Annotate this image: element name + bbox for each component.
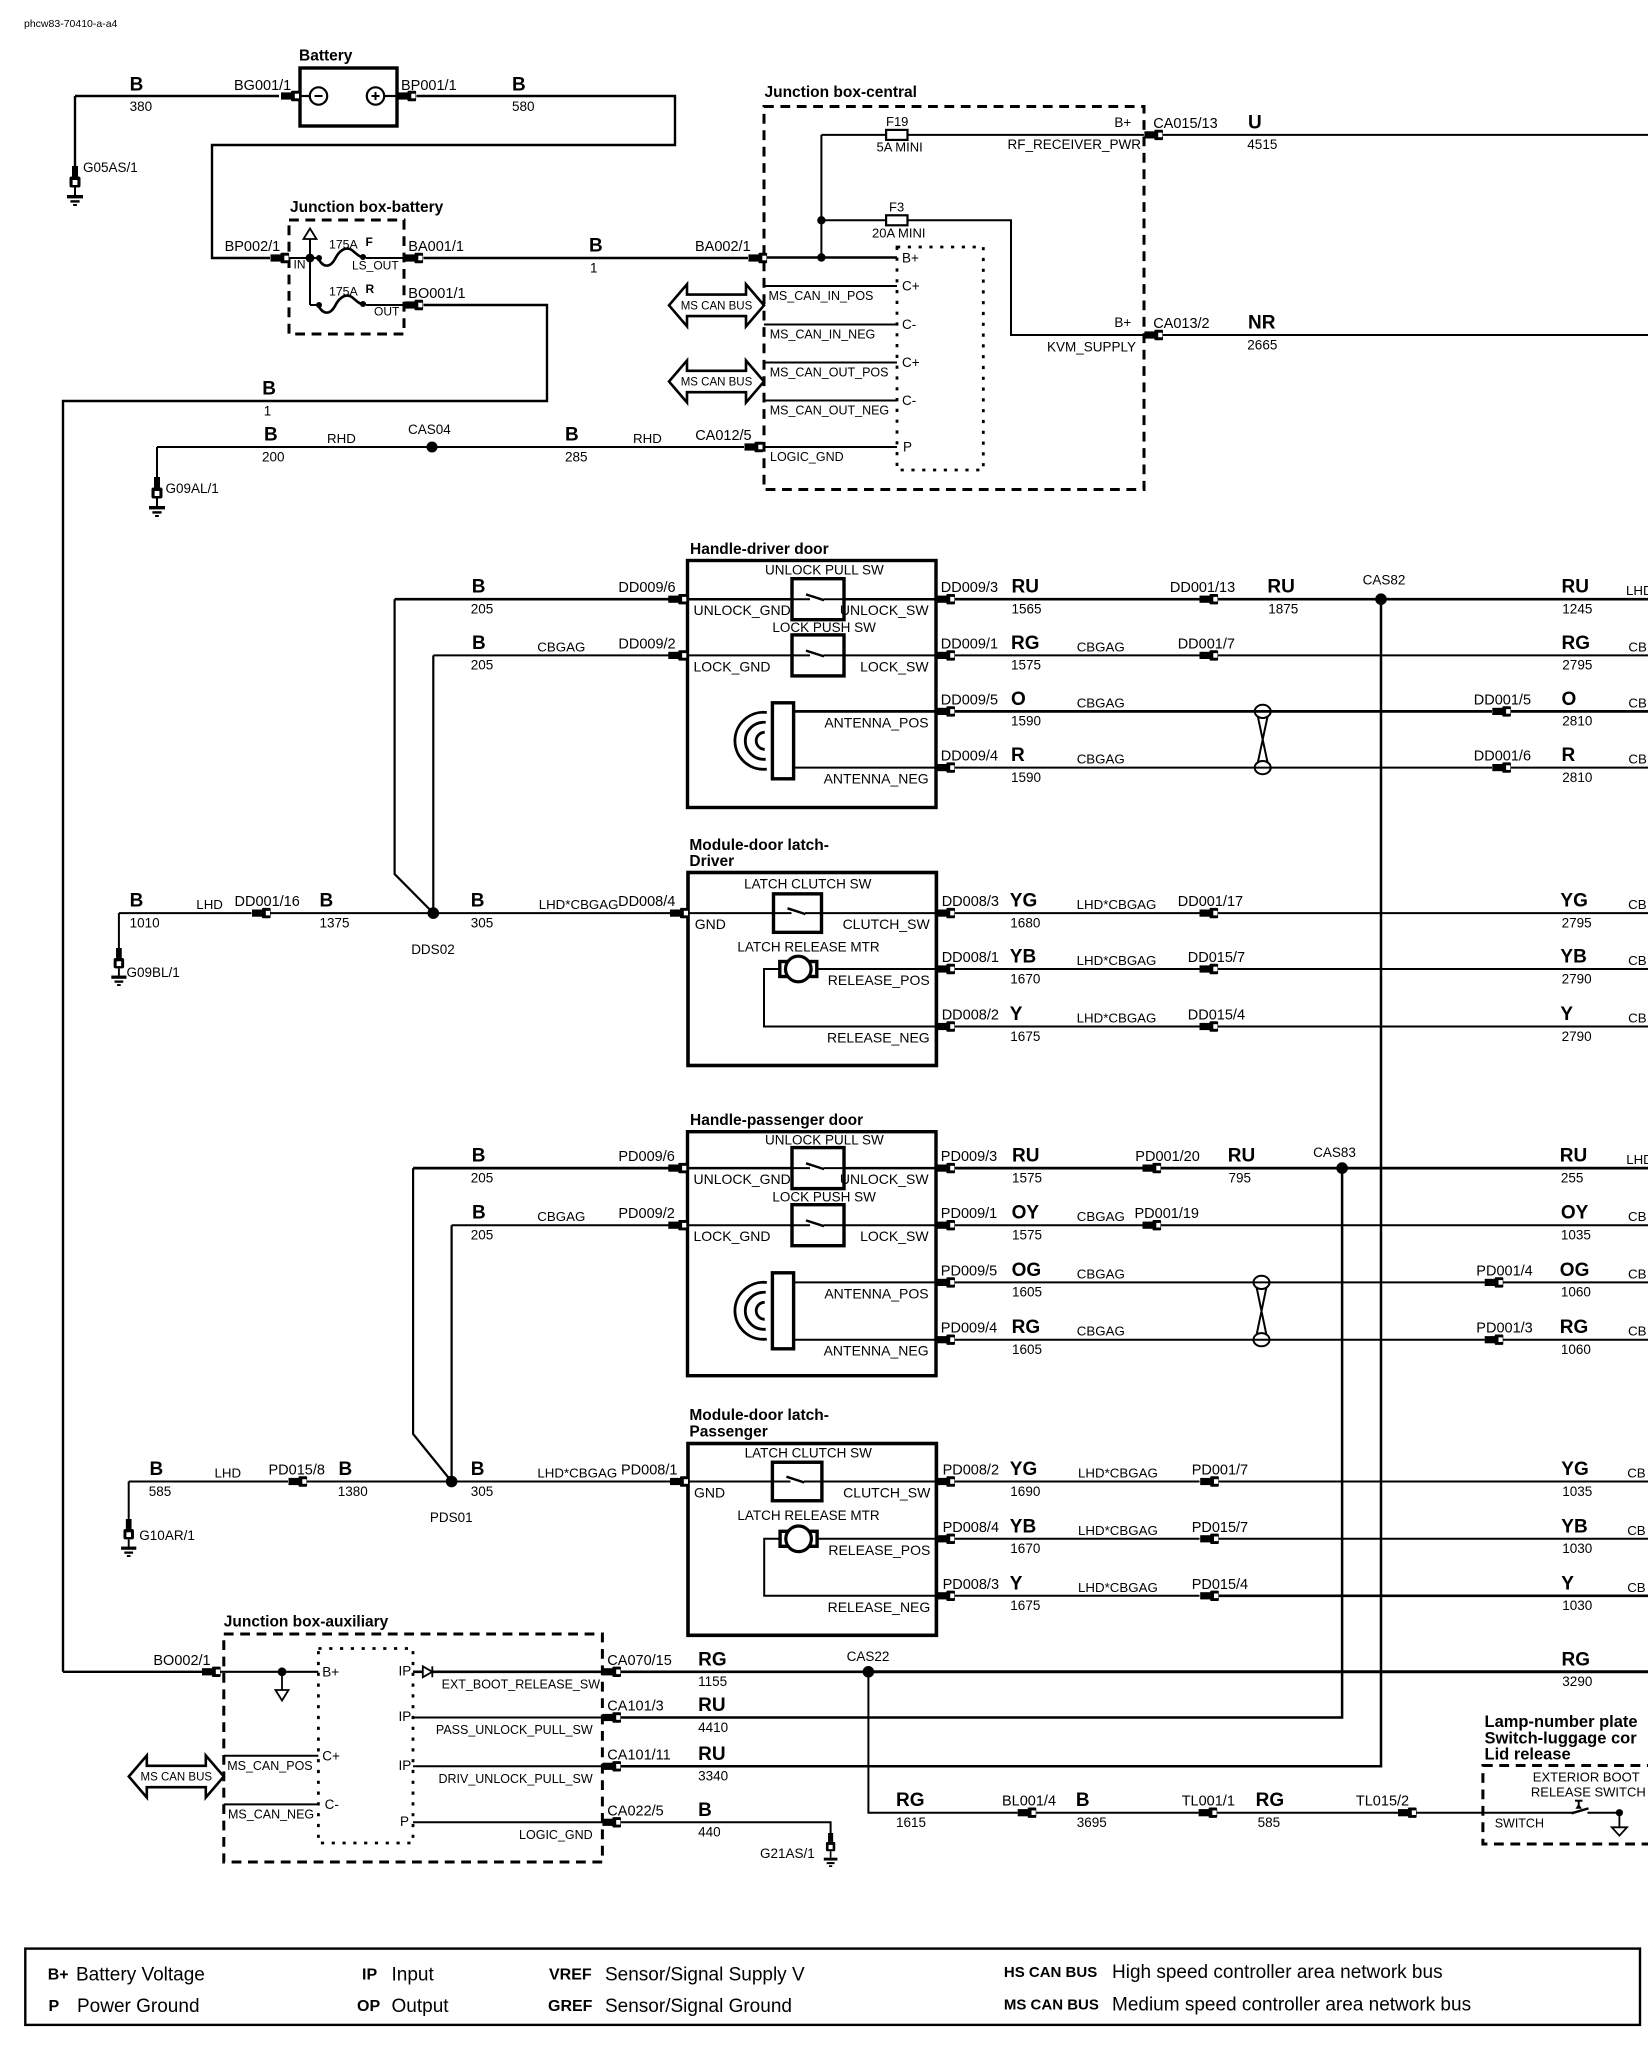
svg-text:CBGAG: CBGAG [1077,639,1125,654]
svg-text:CAS22: CAS22 [847,1649,890,1664]
svg-text:DD009/6: DD009/6 [618,580,675,596]
connector DD015/4 [1188,1008,1245,1032]
svg-text:RG: RG [1562,633,1591,654]
wire YB 1670 LHD*CBGAG [955,947,1200,987]
junction dot boot switch ground [1616,1809,1623,1816]
pin MS_CAN_IN_POS [764,279,920,304]
svg-text:GREF: GREF [548,1998,593,2015]
svg-text:RU: RU [698,1744,725,1765]
connector PD008/1 [621,1463,689,1487]
antenna driver door [735,703,794,779]
svg-text:CA015/13: CA015/13 [1153,116,1218,132]
svg-text:EXTERIOR BOOT: EXTERIOR BOOT [1533,1770,1640,1785]
svg-text:1875: 1875 [1268,602,1298,617]
pin ANTENNA_NEG passenger [794,1340,936,1359]
svg-text:Output: Output [392,1996,450,2017]
svg-text:RU: RU [1012,1146,1039,1167]
svg-text:LHD*CBGAG: LHD*CBGAG [1077,953,1157,968]
pin LOCK_GND / LOCK_SW [688,655,937,674]
svg-text:RG: RG [1560,1317,1589,1338]
svg-text:Power Ground: Power Ground [77,1996,200,2017]
wire RU 1575 passenger [955,1146,1143,1186]
pin KVM_SUPPLY [1047,315,1136,355]
svg-text:CA101/11: CA101/11 [607,1747,670,1763]
legend GREF [548,1996,792,2017]
svg-text:255: 255 [1561,1170,1584,1185]
connector DD008/2 [936,1008,999,1032]
svg-text:CA070/15: CA070/15 [607,1653,672,1669]
svg-text:RG: RG [1011,633,1040,654]
svg-text:RELEASE_NEG: RELEASE_NEG [827,1030,930,1046]
connector PD008/3 [936,1577,999,1601]
connector DD009/3 [936,580,998,604]
connector DD008/3 [936,894,999,918]
svg-text:DD009/1: DD009/1 [941,636,998,652]
pin IP EXT_BOOT_RELEASE_SW [399,1663,603,1691]
pin GND / CLUTCH_SW driver [688,913,936,932]
svg-text:C-: C- [902,317,916,332]
legend P power ground [49,1996,200,2017]
connector DD009/1 [936,636,998,660]
junction box-battery [289,199,444,334]
svg-text:1010: 1010 [130,915,160,930]
lamp-number plate switch-luggage lid release [1483,1713,1648,1844]
svg-text:1: 1 [264,403,272,418]
svg-text:UNLOCK PULL SW: UNLOCK PULL SW [765,1133,884,1148]
svg-text:LHD: LHD [196,897,223,912]
svg-text:CAS82: CAS82 [1363,572,1406,587]
legend MS CAN BUS [1004,1995,1471,2016]
svg-text:EXT_BOOT_RELEASE_SW: EXT_BOOT_RELEASE_SW [442,1678,601,1692]
svg-text:Medium speed controller area n: Medium speed controller area network bus [1112,1995,1471,2016]
connector TL001/1 [1182,1794,1235,1818]
svg-text:CA022/5: CA022/5 [607,1803,663,1819]
wire B 585 LHD [129,1459,288,1499]
svg-text:OY: OY [1012,1203,1040,1224]
svg-text:PDS01: PDS01 [430,1510,473,1525]
svg-text:1575: 1575 [1011,658,1041,673]
pin ANTENNA_NEG driver [794,768,936,787]
svg-text:OG: OG [1560,1260,1590,1281]
svg-text:B: B [698,1800,712,1821]
wire B 205 unlock gnd passenger [413,1146,687,1186]
svg-text:PD008/2: PD008/2 [943,1463,999,1479]
wire B 200 RHD [157,425,744,465]
node CAS22 [847,1649,890,1678]
svg-text:Lamp-number plate: Lamp-number plate [1485,1713,1638,1731]
wire OY 1575 CBGAG [955,1203,1143,1243]
wire into boot switch [1417,1812,1574,1814]
wire RG 1155 [621,1649,868,1689]
wire B 580 battery positive [212,74,675,258]
svg-text:Y: Y [1010,1004,1023,1025]
pin GND / CLUTCH_SW passenger [688,1482,936,1501]
svg-text:Module-door latch-: Module-door latch- [689,837,829,854]
wire YB 1670 LHD*CBGAG [955,1516,1200,1556]
pin RELEASE_POS passenger [817,1539,936,1558]
svg-text:DD009/3: DD009/3 [941,580,998,596]
switch LOCK PUSH SW driver [772,620,876,676]
junction dot F3 tap [817,216,825,224]
svg-text:5A MINI: 5A MINI [877,140,923,155]
svg-text:ANTENNA_NEG: ANTENNA_NEG [824,1343,929,1359]
wire RU 4410 [698,1695,728,1735]
legend B+ battery voltage [48,1965,205,1986]
node PDS01 [430,1476,473,1525]
svg-text:OUT: OUT [374,305,400,319]
svg-text:B: B [472,633,486,654]
connector DD001/17 [1178,894,1243,918]
svg-text:Module-door latch-: Module-door latch- [689,1407,829,1424]
wire RU 1875 [1218,577,1648,617]
svg-text:LOCK_SW: LOCK_SW [860,1228,929,1244]
node DDS02 [411,907,455,957]
svg-text:B: B [472,1203,486,1224]
legend HS CAN BUS [1004,1962,1443,1983]
arrow up symbol [304,229,317,306]
junction box-auxiliary [224,1614,603,1862]
svg-text:1: 1 [590,260,598,275]
bus arrow MS CAN BUS aux [129,1756,224,1798]
svg-text:Y: Y [1561,1573,1574,1594]
junction dot B+ tap [817,253,825,261]
svg-text:B+: B+ [322,1664,339,1679]
wire B+ into aux module [221,1664,340,1679]
svg-text:580: 580 [512,99,535,114]
svg-text:Sensor/Signal Supply V: Sensor/Signal Supply V [605,1965,805,1986]
svg-text:B: B [472,1146,486,1167]
svg-text:2665: 2665 [1247,337,1277,352]
svg-text:B+: B+ [1114,315,1131,330]
handle-driver door [688,541,937,807]
svg-text:DD001/16: DD001/16 [235,894,300,910]
wire B 1380 [307,1459,670,1499]
connector DD009/6 [618,580,686,604]
svg-text:UNLOCK_SW: UNLOCK_SW [840,1171,929,1187]
svg-text:R: R [366,282,375,296]
svg-text:CB: CB [1628,1209,1647,1224]
wire Y 1030 [1219,1573,1648,1613]
connector BA001/1 [405,239,464,263]
connector PD001/7 [1192,1463,1248,1487]
ground G05AS/1 [67,96,138,206]
svg-text:CBGAG: CBGAG [1077,1266,1125,1281]
svg-text:UNLOCK_SW: UNLOCK_SW [840,602,929,618]
svg-text:LHD*CBGAG: LHD*CBGAG [1077,897,1157,912]
svg-text:PD001/4: PD001/4 [1476,1263,1532,1279]
svg-text:LHD*CBGAG: LHD*CBGAG [537,1466,617,1481]
wire OG 1605 CBGAG [955,1260,1485,1300]
connector DD009/2 [618,636,686,660]
svg-text:P: P [903,440,912,455]
wire lock vertical to PDS01 [451,1225,453,1481]
svg-text:205: 205 [471,1170,494,1185]
svg-text:RU: RU [1267,577,1294,598]
pin MS_CAN_NEG aux [224,1797,339,1822]
svg-text:Lid release: Lid release [1485,1746,1571,1764]
svg-text:1035: 1035 [1561,1228,1591,1243]
svg-text:2810: 2810 [1562,714,1592,729]
svg-text:380: 380 [130,99,153,114]
wire B 1 battery feed down left side [63,305,547,1672]
bus arrow MS CAN BUS out [669,361,764,403]
svg-text:CB: CB [1628,639,1647,654]
svg-text:4410: 4410 [698,1720,728,1735]
module-door latch passenger [688,1407,936,1635]
svg-text:CAS04: CAS04 [408,422,451,437]
svg-text:20A MINI: 20A MINI [872,226,925,241]
svg-text:B: B [1076,1790,1090,1811]
legend box [25,1949,1640,2025]
pin RF_RECEIVER_PWR [1007,115,1141,152]
svg-text:CA101/3: CA101/3 [607,1699,663,1715]
pin LOCK_GND / LOCK_SW passenger [688,1225,937,1244]
svg-text:LHD*CBGAG: LHD*CBGAG [1078,1523,1158,1538]
svg-text:Junction box-battery: Junction box-battery [290,199,444,216]
connector DD001/13 [1170,580,1235,604]
svg-text:PD009/3: PD009/3 [941,1149,997,1165]
svg-text:MS_CAN_POS: MS_CAN_POS [227,1759,312,1773]
svg-text:1565: 1565 [1012,602,1042,617]
svg-text:DD001/7: DD001/7 [1178,636,1235,652]
svg-text:VREF: VREF [549,1967,592,1984]
svg-text:PD015/4: PD015/4 [1192,1577,1248,1593]
svg-text:RG: RG [1012,1317,1041,1338]
svg-text:MS_CAN_IN_POS: MS_CAN_IN_POS [769,289,874,303]
wire Y 1675 LHD*CBGAG [955,1573,1200,1613]
svg-text:175A: 175A [329,238,359,252]
svg-text:PD015/7: PD015/7 [1192,1520,1248,1536]
switch LOCK PUSH SW passenger [772,1190,876,1246]
connector PD008/2 [936,1463,999,1487]
svg-text:B: B [472,577,486,598]
svg-text:RF_RECEIVER_PWR: RF_RECEIVER_PWR [1007,137,1141,152]
label RU 1245 LHD [1562,577,1648,617]
junction node jb-battery [306,254,315,263]
svg-text:PD001/3: PD001/3 [1476,1321,1532,1337]
svg-text:CBGAG: CBGAG [1077,1324,1125,1339]
svg-text:1615: 1615 [896,1815,926,1830]
wire B 1 to junction box-central [424,236,749,276]
svg-text:GND: GND [695,916,726,932]
wire B 205 unlock gnd driver [395,577,688,617]
svg-text:CBGAG: CBGAG [1077,752,1125,767]
svg-text:PD009/6: PD009/6 [618,1149,674,1165]
ground G09BL/1 [111,913,179,986]
connector DD001/5 [1474,692,1531,716]
pin UNLOCK_GND / UNLOCK_SW passenger [688,1168,937,1187]
connector DD001/7 [1178,636,1235,660]
svg-text:PD009/1: PD009/1 [941,1206,997,1222]
svg-text:3695: 3695 [1077,1815,1107,1830]
svg-text:LHD: LHD [1626,1152,1648,1167]
pin MS_CAN_OUT_NEG [764,393,916,418]
svg-text:LOCK_SW: LOCK_SW [860,658,929,674]
svg-text:UNLOCK_GND: UNLOCK_GND [694,602,791,618]
connector PD009/3 [936,1149,997,1173]
svg-text:DD008/3: DD008/3 [942,894,999,910]
svg-text:PASS_UNLOCK_PULL_SW: PASS_UNLOCK_PULL_SW [436,1723,593,1737]
svg-text:C+: C+ [902,355,920,370]
antenna passenger door [735,1273,794,1349]
svg-text:Sensor/Signal Ground: Sensor/Signal Ground [605,1996,792,2017]
svg-text:CB: CB [1628,1324,1647,1339]
svg-text:1675: 1675 [1010,1598,1040,1613]
svg-text:G21AS/1: G21AS/1 [760,1846,815,1861]
svg-text:MS_CAN_OUT_NEG: MS_CAN_OUT_NEG [770,404,889,418]
svg-text:B+: B+ [902,251,919,266]
svg-text:BG001/1: BG001/1 [234,78,291,94]
legend IP input [362,1965,434,1986]
connector PD009/4 [936,1321,997,1345]
svg-text:DDS02: DDS02 [411,942,455,957]
ground G21AS/1 [760,1833,837,1867]
svg-text:IN: IN [294,258,306,272]
svg-text:1575: 1575 [1012,1170,1042,1185]
connector CA101/3 [602,1699,663,1723]
svg-text:IP: IP [399,1709,412,1724]
svg-text:BA002/1: BA002/1 [695,239,751,255]
svg-text:PD001/20: PD001/20 [1135,1149,1200,1165]
connector CA015/13 [1144,116,1217,140]
svg-text:CB: CB [1627,1580,1646,1595]
svg-text:Driver: Driver [689,853,734,870]
svg-text:1605: 1605 [1012,1342,1042,1357]
svg-text:RHD: RHD [327,431,356,446]
connector DD008/1 [936,950,999,974]
svg-text:TL015/2: TL015/2 [1356,1794,1409,1810]
svg-text:LOCK PUSH SW: LOCK PUSH SW [772,1190,876,1205]
svg-text:440: 440 [698,1825,721,1840]
svg-text:BP001/1: BP001/1 [401,78,457,94]
node CAS04 [408,422,451,453]
svg-text:CB: CB [1628,953,1647,968]
svg-text:NR: NR [1248,313,1276,334]
svg-text:Y: Y [1010,1573,1023,1594]
svg-text:BO002/1: BO002/1 [153,1653,210,1669]
connector DD008/4 [618,894,689,918]
svg-text:585: 585 [1258,1815,1281,1830]
svg-text:1590: 1590 [1011,770,1041,785]
svg-text:P: P [49,1998,60,2015]
svg-text:OY: OY [1561,1203,1589,1224]
connector PD009/1 [936,1206,997,1230]
connector PD008/4 [936,1520,999,1544]
svg-text:B: B [471,891,485,912]
svg-text:YG: YG [1560,891,1587,912]
svg-text:1035: 1035 [1562,1484,1592,1499]
svg-text:B: B [264,425,278,446]
svg-text:DD015/7: DD015/7 [1188,950,1245,966]
svg-text:B: B [339,1459,353,1480]
connector BP001/1 [398,78,457,101]
pin ANTENNA_POS driver [794,711,936,730]
svg-text:Y: Y [1560,1004,1573,1025]
module-door latch driver [688,837,936,1066]
wire YB 2790 [1218,947,1648,987]
svg-text:1670: 1670 [1010,1541,1040,1556]
connector DD009/5 [936,692,998,716]
connector PD009/2 [618,1206,686,1230]
svg-text:MS CAN BUS: MS CAN BUS [681,300,753,312]
svg-text:High speed controller area net: High speed controller area network bus [1112,1962,1443,1983]
svg-text:B: B [150,1459,164,1480]
twisted pair passenger antenna [1254,1276,1270,1346]
wire unlock vertical to PDS01 [413,1168,452,1481]
svg-text:DD008/1: DD008/1 [942,950,999,966]
wire RG 3290 [868,1649,1648,1689]
switch UNLOCK PULL SW passenger [765,1133,884,1189]
svg-text:PD009/2: PD009/2 [618,1206,674,1222]
svg-text:PD008/3: PD008/3 [943,1577,999,1593]
pin RELEASE_POS driver [817,969,936,988]
svg-text:ANTENNA_POS: ANTENNA_POS [824,1285,928,1301]
svg-text:CAS83: CAS83 [1313,1145,1356,1160]
motor LATCH RELEASE MTR passenger [737,1508,880,1552]
connector BP002/1 [225,239,290,263]
svg-text:DD009/4: DD009/4 [941,749,998,765]
svg-text:1375: 1375 [320,915,350,930]
legend VREF [549,1965,805,1986]
svg-text:1245: 1245 [1562,602,1592,617]
connector PD001/3 [1476,1321,1532,1345]
svg-text:B: B [471,1459,485,1480]
pin MS_CAN_IN_NEG [764,317,916,342]
svg-text:305: 305 [471,1484,494,1499]
svg-text:CB: CB [1628,695,1647,710]
bus arrow MS CAN BUS in [669,284,764,326]
wire CAS22 vertical to boot switch [868,1672,1017,1813]
svg-text:1060: 1060 [1561,1285,1591,1300]
fuse 175A R OUT [310,282,404,319]
wire RG 1060 [1503,1317,1648,1357]
svg-text:Input: Input [392,1965,435,1986]
svg-text:LHD*CBGAG: LHD*CBGAG [1077,1011,1157,1026]
svg-text:LATCH RELEASE MTR: LATCH RELEASE MTR [737,1508,880,1523]
pin MS_CAN_OUT_POS [764,355,920,380]
svg-text:2790: 2790 [1562,1029,1592,1044]
motor LATCH RELEASE MTR driver [737,940,880,982]
pin ANTENNA_POS passenger [794,1282,936,1301]
svg-text:BP002/1: BP002/1 [225,239,281,255]
svg-text:DD015/4: DD015/4 [1188,1008,1245,1024]
svg-text:RU: RU [698,1695,725,1716]
connector DD001/6 [1474,749,1531,773]
svg-text:O: O [1011,689,1026,710]
handle-passenger door [688,1112,937,1376]
svg-text:DD008/4: DD008/4 [618,894,675,910]
svg-text:Handle-driver door: Handle-driver door [690,541,829,558]
wire RU 3340 [698,1744,728,1784]
inner module dotted box auxiliary [318,1649,413,1844]
svg-text:CBGAG: CBGAG [1077,695,1125,710]
svg-text:RG: RG [896,1790,925,1811]
wire B 440 [621,1800,831,1840]
connector PD001/19 [1135,1206,1200,1230]
svg-text:1155: 1155 [698,1674,727,1689]
svg-text:585: 585 [149,1484,172,1499]
switch LATCH CLUTCH SW driver [744,877,872,933]
pin IP DRIV_UNLOCK_PULL_SW [399,1758,603,1786]
svg-text:PD009/5: PD009/5 [941,1263,997,1279]
svg-text:MS CAN BUS: MS CAN BUS [141,1772,213,1784]
wire O 2810 [1511,689,1648,729]
pin IN [294,258,306,272]
svg-text:CB: CB [1628,1266,1647,1281]
svg-text:C-: C- [902,393,916,408]
svg-text:CLUTCH_SW: CLUTCH_SW [843,916,931,932]
wire RG 2795 [1218,633,1648,673]
